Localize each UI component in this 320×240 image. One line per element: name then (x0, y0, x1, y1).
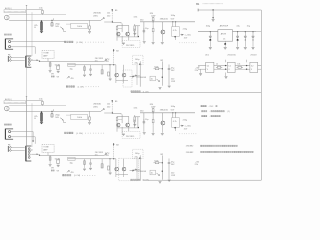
svg-text:3.3k: 3.3k (134, 107, 138, 109)
svg-text:2SC1815: 2SC1815 (126, 136, 135, 138)
svg-text:455: 455 (71, 78, 74, 80)
svg-text:2SK30A: 2SK30A (93, 11, 101, 14)
svg-text:AMP: AMP (43, 55, 48, 58)
svg-text:50k(A): 50k(A) (55, 157, 61, 160)
svg-text:220μ: 220μ (183, 28, 188, 30)
svg-text:6.2: 6.2 (207, 66, 210, 68)
svg-text:10k: 10k (237, 63, 240, 65)
svg-text:(L CH): (L CH) (76, 133, 83, 135)
svg-text:100μ: 100μ (171, 106, 176, 108)
svg-text:10μ: 10μ (145, 28, 148, 30)
svg-text:S1: S1 (31, 60, 33, 62)
svg-text:150k: 150k (154, 160, 158, 162)
svg-text:150k: 150k (154, 66, 158, 68)
svg-text:(Y): (Y) (95, 154, 98, 156)
svg-text:4.7k: 4.7k (173, 30, 177, 32)
svg-text:10μ: 10μ (247, 25, 250, 27)
svg-text:1N4148: 1N4148 (140, 77, 146, 79)
svg-text:1k: 1k (216, 63, 218, 65)
svg-text:22k: 22k (195, 70, 198, 72)
svg-text:AN7815F: AN7815F (220, 24, 229, 27)
svg-text:(L CH): (L CH) (74, 175, 80, 177)
svg-text:(Y): (Y) (95, 60, 98, 62)
svg-text:(1): (1) (228, 111, 231, 113)
svg-text:(L CH): (L CH) (143, 91, 149, 93)
svg-text:2SK30A: 2SK30A (93, 102, 101, 105)
svg-text:2SA1015: 2SA1015 (160, 17, 169, 20)
svg-text:47μ: 47μ (236, 25, 239, 27)
svg-text:47μ: 47μ (135, 63, 138, 65)
svg-text:50V: 50V (55, 117, 59, 119)
svg-text:10μ: 10μ (70, 68, 73, 70)
svg-text:50k(A): 50k(A) (55, 63, 61, 66)
svg-text:2SC18: 2SC18 (250, 55, 257, 57)
svg-text:AN78: AN78 (221, 33, 227, 36)
svg-text:TONE: TONE (43, 53, 49, 55)
svg-text:4.7k: 4.7k (173, 121, 177, 123)
svg-text:3.3k: 3.3k (134, 16, 138, 18)
svg-text:1k: 1k (151, 173, 153, 175)
svg-text:2SD882: 2SD882 (186, 152, 194, 154)
svg-text:(→B2): (→B2) (185, 126, 191, 128)
svg-text:2SC1815: 2SC1815 (126, 45, 135, 47)
svg-text:10μ: 10μ (70, 162, 73, 164)
svg-text:220μ: 220μ (183, 119, 188, 121)
svg-text:(→B2): (→B2) (185, 35, 191, 37)
svg-text:455: 455 (71, 172, 74, 174)
svg-text:100μ: 100μ (135, 59, 140, 61)
svg-text:10μ: 10μ (145, 119, 148, 121)
svg-text:6.2: 6.2 (228, 66, 231, 68)
svg-text:6.2: 6.2 (251, 66, 254, 68)
svg-text:50V: 50V (55, 26, 59, 28)
svg-text:100μ: 100μ (135, 153, 140, 155)
svg-text:1/2W: 1/2W (171, 81, 175, 83)
svg-text:2SA1015: 2SA1015 (160, 108, 169, 111)
svg-text:12k: 12k (107, 103, 110, 105)
svg-text:S1: S1 (31, 150, 33, 152)
svg-text:(L CH): (L CH) (76, 42, 83, 44)
svg-text:100μ: 100μ (171, 15, 176, 17)
svg-text:2SC1815: 2SC1815 (227, 55, 236, 57)
svg-text:100μ: 100μ (206, 25, 211, 27)
svg-text:1k: 1k (151, 79, 153, 81)
svg-text:(L CH): (L CH) (78, 87, 84, 89)
svg-text:1/2W: 1/2W (171, 175, 175, 177)
svg-text:1N4148: 1N4148 (140, 171, 146, 173)
svg-text:47μ: 47μ (135, 157, 138, 159)
svg-text:12k: 12k (107, 12, 110, 14)
svg-text:22k: 22k (195, 164, 198, 166)
svg-text:(GR): (GR) (93, 15, 98, 17)
svg-text:AMP: AMP (43, 149, 48, 152)
svg-text:(GR): (GR) (93, 106, 98, 108)
svg-text:TONE: TONE (43, 147, 49, 149)
svg-text:: 2SC: : 2SC (208, 106, 214, 108)
svg-text:2SD882: 2SD882 (186, 146, 194, 148)
